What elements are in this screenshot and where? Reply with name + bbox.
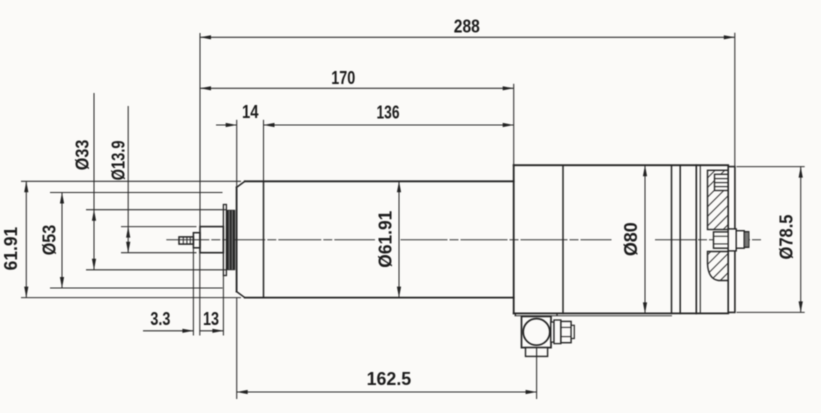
svg-text:Ø13.9: Ø13.9 xyxy=(108,140,128,180)
dim line dia 78.5 xyxy=(800,167,802,313)
svg-text:Ø53: Ø53 xyxy=(40,225,60,256)
dim line dia 33 xyxy=(93,93,95,270)
dim line dia 13.9 xyxy=(127,106,129,253)
cable gland mounting plate xyxy=(515,313,557,315)
ext line housing left face xyxy=(513,84,515,165)
dim line 162.5 xyxy=(237,391,537,393)
rear cap disc left edges xyxy=(695,165,697,313)
gland side tip xyxy=(571,325,574,338)
collet nut front ring xyxy=(223,205,226,276)
ext lines dia 78.5 xyxy=(737,166,805,168)
bottom seam line xyxy=(515,315,672,317)
body chamfer top xyxy=(237,181,245,187)
dim line 170 xyxy=(200,87,514,89)
dim line dia 61.91 xyxy=(398,181,400,297)
dim line dia 53 xyxy=(61,193,63,289)
svg-text:3.3: 3.3 xyxy=(150,309,170,329)
arrows 162.5 xyxy=(237,390,248,394)
arrows 170 xyxy=(200,86,211,90)
arrows dia 61.91 xyxy=(397,181,401,192)
dim leader 3.3 xyxy=(143,330,193,332)
svg-text:Ø78.5: Ø78.5 xyxy=(777,215,797,260)
ext lines dia 13.9 xyxy=(121,226,197,228)
svg-text:136: 136 xyxy=(377,103,400,123)
dim line 288 xyxy=(200,36,735,38)
arrows dia 13.9 xyxy=(126,227,130,238)
motor housing top edge xyxy=(514,164,729,166)
rear ring joint lines xyxy=(671,165,673,313)
gland side collar xyxy=(554,320,561,344)
centerline xyxy=(167,239,375,241)
body bottom edge xyxy=(245,297,514,299)
ext lines dia 33 xyxy=(86,209,226,211)
arrow 3.3 xyxy=(182,329,193,333)
arrows 288 xyxy=(200,35,211,39)
arrows dia 53 xyxy=(60,193,64,204)
svg-text:Ø61.91: Ø61.91 xyxy=(376,211,396,268)
housing internal joint xyxy=(562,165,564,313)
nose cylinder dia 13.9 xyxy=(200,227,223,253)
rear cap hatched section upper xyxy=(708,170,729,229)
motor housing dia 80 left face xyxy=(513,165,515,313)
rear flange plate dia 78.5 xyxy=(728,167,735,313)
dim leader 14 xyxy=(216,124,237,126)
ext lines 61.91 body xyxy=(21,180,241,182)
body dia 61.91 front face xyxy=(236,187,238,291)
arrows dia 33 xyxy=(92,210,96,221)
dim line 136 xyxy=(264,124,514,126)
svg-text:Ø33: Ø33 xyxy=(72,140,92,171)
dim line 61.91 xyxy=(25,181,27,297)
arrows dia 78.5 xyxy=(799,167,803,178)
ext line gland center xyxy=(536,356,538,399)
svg-text:170: 170 xyxy=(331,68,355,88)
front cap joint ring xyxy=(263,181,265,297)
ext line cap joint xyxy=(263,120,265,182)
ext line nose face 13 xyxy=(222,276,224,336)
shaft tip (threaded stud) xyxy=(179,237,193,244)
shaft flange (3.3 wide collar) xyxy=(193,233,200,248)
arrows 136 xyxy=(264,123,275,127)
dim line dia 80 xyxy=(644,165,646,313)
svg-text:288: 288 xyxy=(454,17,480,37)
gland bottom neck xyxy=(526,348,548,357)
ext lines dia 53 xyxy=(50,192,223,194)
svg-text:162.5: 162.5 xyxy=(367,369,412,389)
arrows 61.91 xyxy=(24,181,28,192)
cable gland circle xyxy=(523,319,550,346)
cable gland block xyxy=(522,316,552,347)
svg-text:Ø80: Ø80 xyxy=(621,222,641,256)
ext line rear face xyxy=(734,33,736,167)
collet nut dark band dia 33 xyxy=(226,210,235,270)
body chamfer bottom xyxy=(237,292,245,298)
rear washer xyxy=(728,229,736,251)
rear screw cross-section xyxy=(715,174,729,190)
rear knurled cap xyxy=(744,232,749,248)
motor housing bottom edge xyxy=(514,312,729,314)
ext line body front face xyxy=(236,120,238,188)
arrows dia 80 xyxy=(643,165,647,176)
svg-text:13: 13 xyxy=(203,309,219,329)
gland side flange xyxy=(551,322,554,342)
gland side nut xyxy=(561,321,571,342)
dim line 13 xyxy=(200,330,224,332)
arrow 13 xyxy=(212,329,223,333)
body top edge xyxy=(245,180,514,182)
svg-text:61.91: 61.91 xyxy=(1,227,21,271)
svg-text:14: 14 xyxy=(242,102,259,122)
rear cap hatched section lower xyxy=(708,252,729,281)
ext line shaft flange right face / overall datum xyxy=(199,33,201,233)
arrow 14 xyxy=(226,123,237,127)
rear stud cylinder xyxy=(736,231,744,249)
ext line shaft flange left face xyxy=(192,248,194,336)
rear nut xyxy=(714,232,729,248)
